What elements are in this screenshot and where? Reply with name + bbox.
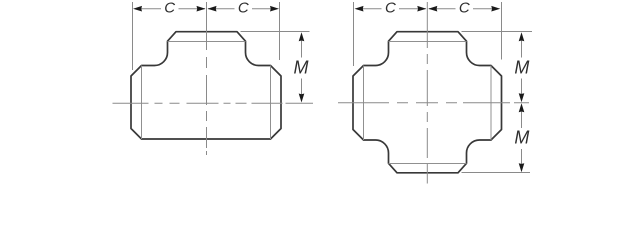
cross M upper bottom arrow	[519, 93, 525, 102]
tee M dimension line	[301, 34, 303, 58]
cross C dimension line right half	[429, 8, 456, 10]
tee fitting outline	[131, 32, 281, 139]
cross vertical centerline	[426, 2, 428, 184]
cross M upper top arrow	[519, 32, 525, 41]
cross M top extension line	[462, 31, 533, 33]
cross C dimension left arrow	[355, 6, 364, 12]
tee C dimension left arrow	[133, 6, 142, 12]
cross M lower dimension line	[521, 105, 523, 129]
cross bottom branch bevel line	[389, 163, 467, 165]
tee C dimension left extension line	[132, 2, 134, 70]
tee M top extension line	[241, 31, 310, 33]
cross C dimension left extension line	[353, 2, 355, 66]
cross M upper dimension line	[521, 34, 523, 58]
tee horizontal centerline	[113, 102, 314, 104]
tee M bottom arrow	[299, 94, 305, 103]
tee branch bevel line	[168, 41, 246, 43]
svg-text:C: C	[238, 0, 249, 17]
svg-text:C: C	[385, 0, 396, 17]
svg-text:M: M	[514, 128, 529, 148]
cross M lower top arrow	[519, 103, 525, 112]
tee M top arrow	[299, 32, 305, 41]
tee C dimension right arrow	[270, 6, 279, 12]
svg-text:M: M	[294, 57, 309, 77]
cross C dimension line left half	[361, 8, 382, 10]
cross C dimension center-right arrow	[428, 6, 437, 12]
cross M lower bottom arrow	[519, 163, 525, 172]
cross horizontal centerline	[338, 102, 529, 104]
cross C dimension center-left arrow	[417, 6, 426, 12]
svg-text:C: C	[459, 0, 470, 17]
tee C dimension line left half	[140, 8, 161, 10]
tee vertical centerline	[206, 2, 208, 155]
tee left end bevel line	[141, 66, 143, 140]
cross top branch bevel line	[389, 41, 467, 43]
cross C dimension right arrow	[491, 6, 500, 12]
tee right end bevel line	[270, 66, 272, 140]
svg-text:C: C	[164, 0, 175, 17]
cross C dimension right extension line	[501, 2, 503, 60]
tee C dimension line right half	[208, 8, 235, 10]
cross right end bevel line	[490, 66, 492, 141]
tee C dimension center-left arrow	[197, 6, 206, 12]
tee C dimension center-right arrow	[208, 6, 217, 12]
cross fitting outline	[353, 32, 502, 173]
svg-text:M: M	[514, 57, 529, 77]
tee C dimension right extension line	[279, 2, 281, 60]
cross left end bevel line	[363, 66, 365, 141]
cross M bottom extension line	[462, 172, 531, 174]
